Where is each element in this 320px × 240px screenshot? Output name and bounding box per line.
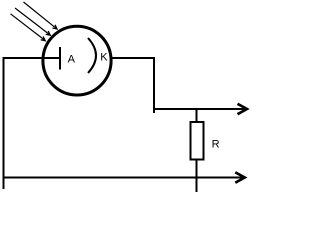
svg-text:K: K — [100, 52, 108, 64]
svg-text:A: A — [68, 53, 76, 65]
svg-text:R: R — [212, 138, 220, 150]
